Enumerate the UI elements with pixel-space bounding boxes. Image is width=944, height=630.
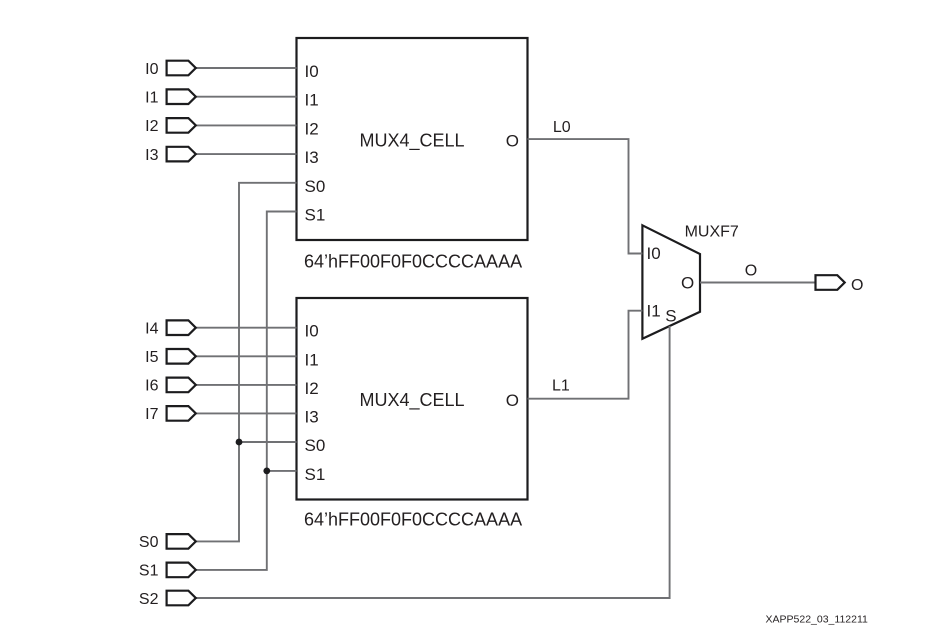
multiplexer U3 MUXF7 body xyxy=(642,225,700,338)
svg-text:64’hFF00F0F0CCCCAAAA: 64’hFF00F0F0CCCCAAAA xyxy=(304,509,522,529)
svg-text:I3: I3 xyxy=(305,148,319,167)
input port S0 xyxy=(167,534,196,549)
wire net S0: port to U1.S0 vertical run xyxy=(196,183,297,542)
svg-text:O: O xyxy=(851,277,863,294)
svg-text:I1: I1 xyxy=(305,350,319,369)
input port I6 xyxy=(167,378,196,393)
svg-text:64’hFF00F0F0CCCCAAAA: 64’hFF00F0F0CCCCAAAA xyxy=(304,251,522,271)
wire I6 to U2.I2 xyxy=(196,384,297,386)
svg-text:MUXF7: MUXF7 xyxy=(685,224,739,241)
svg-text:I2: I2 xyxy=(305,379,319,398)
svg-text:XAPP522_03_112211: XAPP522_03_112211 xyxy=(766,614,869,626)
svg-text:S1: S1 xyxy=(139,563,159,580)
svg-text:O: O xyxy=(506,391,519,410)
wire net L0: U1.O to U3.I0 xyxy=(528,139,643,253)
svg-text:S0: S0 xyxy=(305,177,326,196)
svg-text:I5: I5 xyxy=(145,349,158,366)
MUX4_CELL U2 box xyxy=(297,298,528,500)
svg-text:I3: I3 xyxy=(305,407,319,426)
svg-text:O: O xyxy=(745,262,757,279)
svg-text:S1: S1 xyxy=(305,465,326,484)
svg-text:I6: I6 xyxy=(145,378,158,395)
input port I2 xyxy=(167,118,196,133)
svg-text:I0: I0 xyxy=(647,244,661,263)
input port S2 xyxy=(167,591,196,606)
wire net O: U3.O to output port xyxy=(700,282,816,284)
wire net L1: U2.O to U3.I1 xyxy=(528,311,643,399)
input port I4 xyxy=(167,320,196,335)
wire I3 to U1.I3 xyxy=(196,153,297,155)
junction dot net S1 xyxy=(263,468,270,475)
input port I7 xyxy=(167,406,196,421)
output port O xyxy=(816,275,845,290)
wire net S1: port to U1.S1 vertical run xyxy=(196,212,297,570)
svg-text:MUX4_CELL: MUX4_CELL xyxy=(359,131,464,152)
svg-text:S0: S0 xyxy=(139,534,159,551)
svg-text:S2: S2 xyxy=(139,591,159,608)
svg-text:O: O xyxy=(681,273,694,292)
input port S1 xyxy=(167,563,196,578)
svg-text:I3: I3 xyxy=(145,147,158,164)
wire I2 to U1.I2 xyxy=(196,124,297,126)
wire net S0 branch to U2.S0 xyxy=(239,441,297,443)
svg-text:I7: I7 xyxy=(145,406,158,423)
svg-text:I0: I0 xyxy=(305,322,319,341)
svg-text:I1: I1 xyxy=(145,90,158,107)
wire I0 to U1.I0 xyxy=(196,67,297,69)
MUX4_CELL U1 box xyxy=(297,38,528,240)
wire net S2: port to U3.S xyxy=(196,326,670,598)
input port I5 xyxy=(167,349,196,364)
input port I1 xyxy=(167,89,196,104)
svg-text:L1: L1 xyxy=(552,378,570,395)
wire I5 to U2.I1 xyxy=(196,355,297,357)
svg-text:I4: I4 xyxy=(145,321,158,338)
svg-text:L0: L0 xyxy=(553,119,571,136)
svg-text:I0: I0 xyxy=(305,62,319,81)
svg-text:I2: I2 xyxy=(145,118,158,135)
wire I7 to U2.I3 xyxy=(196,412,297,414)
svg-text:I1: I1 xyxy=(305,91,319,110)
svg-text:I2: I2 xyxy=(305,119,319,138)
wire net S1 branch to U2.S1 xyxy=(267,470,297,472)
svg-text:I1: I1 xyxy=(647,301,661,320)
svg-text:I0: I0 xyxy=(145,61,158,78)
svg-text:S0: S0 xyxy=(305,436,326,455)
svg-text:S1: S1 xyxy=(305,206,326,225)
input port I0 xyxy=(167,61,196,76)
svg-text:S: S xyxy=(665,307,676,326)
input port I3 xyxy=(167,147,196,162)
wire I4 to U2.I0 xyxy=(196,327,297,329)
wire I1 to U1.I1 xyxy=(196,96,297,98)
svg-text:O: O xyxy=(506,132,519,151)
junction dot net S0 xyxy=(236,439,243,446)
svg-text:MUX4_CELL: MUX4_CELL xyxy=(359,390,464,411)
